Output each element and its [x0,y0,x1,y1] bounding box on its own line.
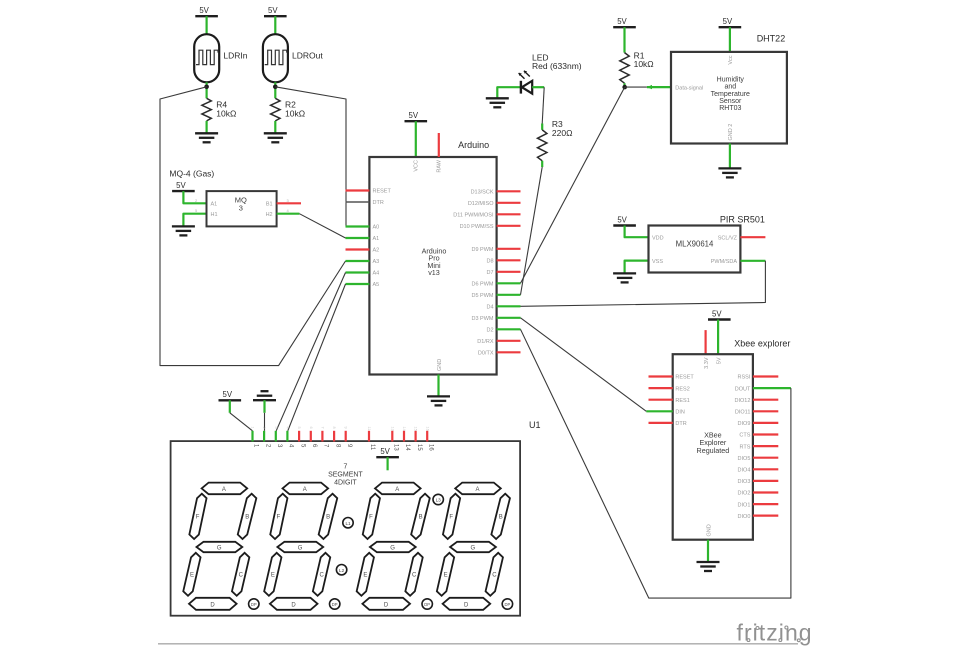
svg-text:16: 16 [427,444,433,451]
pin XBee RSSI stub [753,375,778,377]
resistor R2 [271,98,280,121]
svg-text:DIO0: DIO0 [738,514,751,520]
pin RAW stub [438,133,440,157]
photoresistor LDROut [263,34,288,82]
wire Arduino D3 to XBee DIN [521,318,647,412]
LED LED1 red 633nm [520,81,522,94]
wire LDRIn junction to Arduino A3 [160,87,346,366]
resistor R3 [541,124,543,130]
pin RESET stub [346,189,370,191]
display U1 7-segment 4-digit [171,441,520,616]
svg-text:D3 PWM: D3 PWM [472,316,494,322]
IC DHT22 humidity sensor [671,52,787,144]
svg-text:Arduino: Arduino [458,140,489,150]
svg-text:A: A [222,487,226,493]
svg-text:16: 16 [425,427,429,431]
IC XBee Explorer Regulated [673,354,753,540]
pin XBee CTS stub [753,433,778,435]
svg-text:Data-signal: Data-signal [675,85,703,91]
svg-text:5V: 5V [723,17,733,26]
wire junction to Arduino D6 [521,87,625,283]
svg-text:F: F [369,515,373,521]
svg-text:A: A [303,487,307,493]
svg-text:13: 13 [393,444,399,451]
pin D3 PWM stub [497,317,521,319]
display colon L2 [336,565,346,575]
ground (R2) [274,121,276,133]
svg-text:D5 PWM: D5 PWM [472,293,494,299]
svg-text:DTR: DTR [675,421,686,427]
svg-text:F: F [449,515,453,521]
ground (PIR VSS) [625,261,649,274]
svg-text:DIN: DIN [675,410,685,416]
svg-text:F: F [196,515,200,521]
pin D8 stub [497,259,521,261]
svg-text:5V: 5V [268,6,278,15]
node DHT data junction [622,85,627,90]
svg-text:10kΩ: 10kΩ [216,109,236,119]
svg-text:RESET: RESET [373,189,392,195]
svg-text:MQ-4 (Gas): MQ-4 (Gas) [169,169,214,179]
pin DTR stub [346,201,370,203]
svg-text:C: C [320,573,325,579]
display digit 2 [264,483,340,610]
pin D1/RX stub [497,340,521,342]
svg-text:7: 7 [343,464,347,471]
display digit 4 [437,483,513,610]
svg-text:A1: A1 [373,236,380,242]
pin XBee RES1 stub [649,399,673,401]
svg-text:and: and [724,84,736,91]
svg-text:CTS: CTS [739,433,750,439]
svg-text:14: 14 [404,444,410,451]
pin PWM/SDA stub [740,260,765,262]
wire XBee DOUT to Arduino D2 [521,329,791,598]
svg-text:DIO9: DIO9 [738,421,751,427]
ground (Arduino GND) [437,375,439,397]
svg-text:D12/MISO: D12/MISO [468,201,494,207]
svg-text:5V: 5V [380,447,390,456]
svg-text:5V: 5V [712,309,722,318]
svg-text:D: D [291,603,296,609]
pin XBee DIO0 stub [753,514,778,516]
pin D10 PWM/SS stub [497,225,521,227]
svg-text:RESET: RESET [675,375,694,381]
svg-text:D0/TX: D0/TX [478,351,494,357]
svg-text:B1: B1 [266,202,273,208]
wire LDROut to R2 [274,82,276,98]
svg-text:D: D [384,603,389,609]
ground (DHT22) [729,144,731,169]
pin D11 PWM/MOSI stub [497,213,521,215]
node LDROut junction [273,85,278,90]
svg-text:D2: D2 [486,328,493,334]
wire R3 to Arduino D5 [521,167,543,295]
pin 3.3V stub [704,330,706,354]
svg-text:E: E [363,573,367,579]
wire LDROut junction to Arduino A0 [275,87,346,227]
display pin stubs [251,431,253,442]
svg-text:A4: A4 [373,271,380,277]
pin XBee DIN stub [646,410,672,412]
pin A3 stub [346,260,370,262]
display digit 3 [357,483,433,610]
svg-text:D11 PWM/MOSI: D11 PWM/MOSI [453,213,494,219]
svg-text:E: E [271,573,275,579]
svg-text:15: 15 [416,444,422,451]
pin D12/MISO stub [497,202,521,204]
svg-text:DP: DP [424,602,430,607]
pin XBee RES2 stub [649,387,673,389]
svg-text:4DIGIT: 4DIGIT [334,479,357,486]
svg-text:D7: D7 [486,270,493,276]
pin XBee DOUT stub [753,387,791,389]
svg-text:5V: 5V [176,181,186,190]
svg-text:U1: U1 [529,420,541,430]
svg-text:D10 PWM/SS: D10 PWM/SS [460,224,494,230]
svg-text:E: E [190,573,194,579]
svg-text:PWM/SDA: PWM/SDA [711,259,738,265]
svg-text:Red (633nm): Red (633nm) [532,61,582,71]
svg-text:1: 1 [251,427,255,429]
svg-text:B: B [245,515,249,521]
svg-text:DIO12: DIO12 [734,398,750,404]
wire LDRIn to R4 [206,82,208,98]
svg-text:RES1: RES1 [675,398,689,404]
svg-text:D9 PWM: D9 PWM [472,247,494,253]
svg-text:VSS: VSS [652,259,663,265]
svg-text:DTR: DTR [373,200,384,206]
svg-text:G: G [390,546,395,552]
svg-text:B: B [499,515,503,521]
svg-text:15: 15 [414,427,418,431]
svg-text:VDD: VDD [652,236,664,242]
svg-text:E: E [444,573,448,579]
svg-text:LDRIn: LDRIn [223,51,247,61]
wire ground to display pin 2 [264,413,266,431]
svg-text:A2: A2 [373,248,380,254]
svg-text:5: 5 [297,427,301,429]
svg-text:G: G [470,546,475,552]
svg-text:C: C [239,573,244,579]
svg-text:14: 14 [402,427,406,431]
pin XBee DIO12 stub [753,399,778,401]
svg-text:DIO2: DIO2 [738,491,751,497]
svg-text:5V: 5V [223,390,233,399]
pin D4 stub [497,305,521,307]
svg-text:C: C [412,573,417,579]
pin A4 stub [346,271,370,273]
svg-text:v13: v13 [428,268,440,277]
display dot L3 [433,494,443,504]
resistor R4 [202,98,211,121]
svg-text:5V: 5V [199,6,209,15]
svg-text:RSSI: RSSI [738,375,751,381]
svg-text:10kΩ: 10kΩ [285,109,305,119]
svg-text:6: 6 [309,427,313,429]
pin XBee DIO9 stub [753,422,778,424]
svg-text:11: 11 [369,444,375,451]
wire LED to R3 [542,87,544,123]
svg-text:5V: 5V [617,17,627,26]
svg-text:B: B [326,515,330,521]
pin D13/SCK stub [497,190,521,192]
pin XBee DIO2 stub [753,491,778,493]
svg-text:9: 9 [344,427,348,429]
svg-text:13: 13 [390,427,394,431]
pin XBee DIO3 stub [753,480,778,482]
svg-text:L2: L2 [339,568,345,573]
wire MQ H2 to Arduino A1 [299,214,345,238]
svg-text:DP: DP [504,602,510,607]
node LDRIn junction [204,85,209,90]
svg-text:PIR SR501: PIR SR501 [720,215,765,225]
svg-text:DIO4: DIO4 [738,468,751,474]
pin XBee RTS stub [753,445,778,447]
svg-text:RAW: RAW [437,159,443,172]
pin D6 PWM stub [497,282,521,284]
svg-text:H2: H2 [266,212,273,218]
svg-text:LDROut: LDROut [292,51,323,61]
svg-text:G: G [298,546,303,552]
ground (MQ H1) [183,214,206,227]
svg-text:VCC: VCC [414,160,420,172]
pin SCL/VZ stub [740,236,765,238]
pin D2 stub [497,328,521,330]
wire 5V to display pin 1 [230,413,253,431]
pin A0 stub [346,225,370,227]
pin H2 stub [277,213,300,215]
svg-text:G: G [217,546,222,552]
svg-text:11: 11 [367,427,371,431]
wire Arduino A4 to display pin 3 [276,273,345,431]
wire LED anode [532,86,544,88]
svg-text:D: D [464,603,469,609]
svg-text:L3: L3 [436,498,442,503]
pin D9 PWM stub [497,248,521,250]
pin A5 stub [346,283,370,285]
pin D7 stub [497,271,521,273]
svg-text:5V: 5V [409,111,419,120]
svg-text:Xbee explorer: Xbee explorer [734,338,790,348]
svg-text:DIO11: DIO11 [735,410,751,416]
svg-text:3: 3 [239,204,243,213]
svg-text:A: A [395,487,399,493]
svg-text:SCL/VZ: SCL/VZ [718,236,738,242]
IC Arduino Pro Mini U2 [369,157,496,375]
wire junction to DHT22 Data-signal [625,86,647,88]
display colon L1 [343,518,353,528]
ground (LED) [497,87,521,98]
svg-text:D13/SCK: D13/SCK [471,190,494,196]
svg-text:5V: 5V [617,215,627,224]
svg-text:8: 8 [332,427,336,429]
svg-text:7: 7 [320,427,324,429]
svg-text:DIO5: DIO5 [738,456,751,462]
svg-text:DP: DP [332,602,338,607]
ground (XBee) [707,540,709,562]
IC MQ-4 gas sensor [207,191,277,226]
IC PIR MLX90614 [649,226,741,273]
pin XBee DIO11 stub [753,410,778,412]
svg-text:D4: D4 [486,305,493,311]
svg-text:2: 2 [262,427,266,429]
svg-text:5V: 5V [717,357,723,364]
pin D0/TX stub [497,351,521,353]
svg-text:220Ω: 220Ω [552,128,573,138]
svg-text:DIO1: DIO1 [738,502,751,508]
pin XBee DIO4 stub [753,468,778,470]
svg-text:A3: A3 [373,259,380,265]
svg-text:3: 3 [274,427,278,429]
svg-text:MLX90614: MLX90614 [676,240,714,249]
wire 5V to MQ A1 [183,191,206,203]
svg-text:Temperature: Temperature [711,91,750,98]
svg-text:GND: GND [707,524,713,536]
svg-text:C: C [492,573,497,579]
ground (display pin2, inverted) [253,399,276,401]
svg-text:D6 PWM: D6 PWM [472,282,494,288]
svg-text:10kΩ: 10kΩ [634,59,654,69]
pin XBee RESET stub [649,375,673,377]
pin A1 stub [346,237,370,239]
svg-text:GND: GND [437,359,443,371]
display digit 1 [183,483,259,610]
wire PIR PWM/SDA to Arduino D4 [521,261,766,307]
svg-text:Sensor: Sensor [719,98,742,105]
wire 5V to PIR VDD [625,226,649,238]
svg-text:SEGMENT: SEGMENT [328,471,363,478]
svg-text:GND 2: GND 2 [728,124,734,141]
pin XBee DTR stub [649,422,673,424]
svg-text:H1: H1 [211,212,218,218]
resistor R1 [620,53,629,84]
wire Arduino A5 to display pin 4 [288,284,346,431]
pin B1 stub [277,202,301,204]
svg-text:Humidity: Humidity [717,77,745,84]
svg-text:DOUT: DOUT [735,386,751,392]
svg-text:A: A [475,487,479,493]
svg-text:B: B [419,515,423,521]
svg-text:D1/RX: D1/RX [477,339,494,345]
svg-text:DHT22: DHT22 [757,34,786,44]
pin D5 PWM stub [497,294,521,296]
svg-text:DIO3: DIO3 [738,479,751,485]
svg-text:L1: L1 [345,521,351,526]
pin XBee DIO5 stub [753,457,778,459]
svg-text:DP: DP [251,602,257,607]
svg-text:Regulated: Regulated [697,446,730,455]
ground (R4) [206,121,208,133]
footer rule [158,643,798,645]
svg-text:A5: A5 [373,282,380,288]
svg-text:3.3V: 3.3V [704,357,710,369]
svg-text:A1: A1 [211,202,218,208]
svg-text:D: D [210,603,215,609]
svg-text:RTS: RTS [739,444,750,450]
svg-text:D8: D8 [486,259,493,265]
pin XBee DIO1 stub [753,503,778,505]
svg-text:F: F [277,515,281,521]
svg-text:RES2: RES2 [675,386,689,392]
pin A2 stub [346,248,370,250]
svg-text:4: 4 [285,427,289,429]
svg-text:Vcc: Vcc [728,55,734,64]
photoresistor LDRIn [194,34,219,82]
svg-text:RHT03: RHT03 [719,105,741,112]
svg-text:A0: A0 [373,225,380,231]
